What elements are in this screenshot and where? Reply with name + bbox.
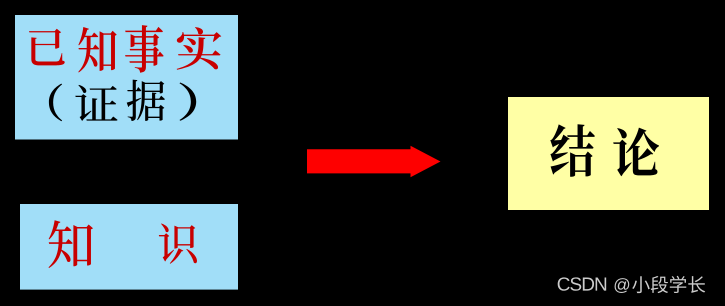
text: 知 识 (red, bottom box) <box>48 220 197 268</box>
box: known facts (top-left blue) <box>15 15 238 140</box>
arrow: red block arrow <box>307 146 441 178</box>
watermark: CSDN @小段学长 <box>558 276 706 293</box>
text: （证据） (black, line 2 of top box) <box>49 80 196 122</box>
text: 结 论 (black, yellow box) <box>550 124 659 177</box>
text: 已知事实 (red, line 1 of top box) <box>29 25 221 73</box>
box: knowledge (bottom-left blue) <box>20 204 238 290</box>
box: conclusion (right yellow) <box>508 97 709 210</box>
